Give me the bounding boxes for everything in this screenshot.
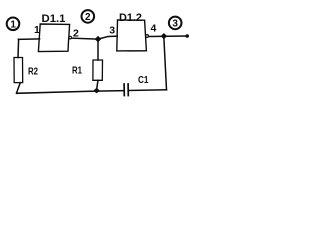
svg-text:3: 3 — [109, 25, 115, 37]
svg-text:R2: R2 — [28, 66, 38, 78]
svg-text:4: 4 — [151, 23, 157, 35]
svg-text:D1.1: D1.1 — [42, 13, 66, 25]
svg-text:3: 3 — [172, 18, 178, 29]
svg-text:1: 1 — [10, 19, 16, 30]
svg-text:R1: R1 — [72, 65, 82, 77]
svg-text:D1.2: D1.2 — [119, 12, 142, 24]
svg-text:2: 2 — [73, 28, 79, 40]
svg-text:1: 1 — [34, 24, 40, 36]
svg-text:C1: C1 — [138, 74, 149, 86]
svg-text:2: 2 — [85, 12, 91, 23]
